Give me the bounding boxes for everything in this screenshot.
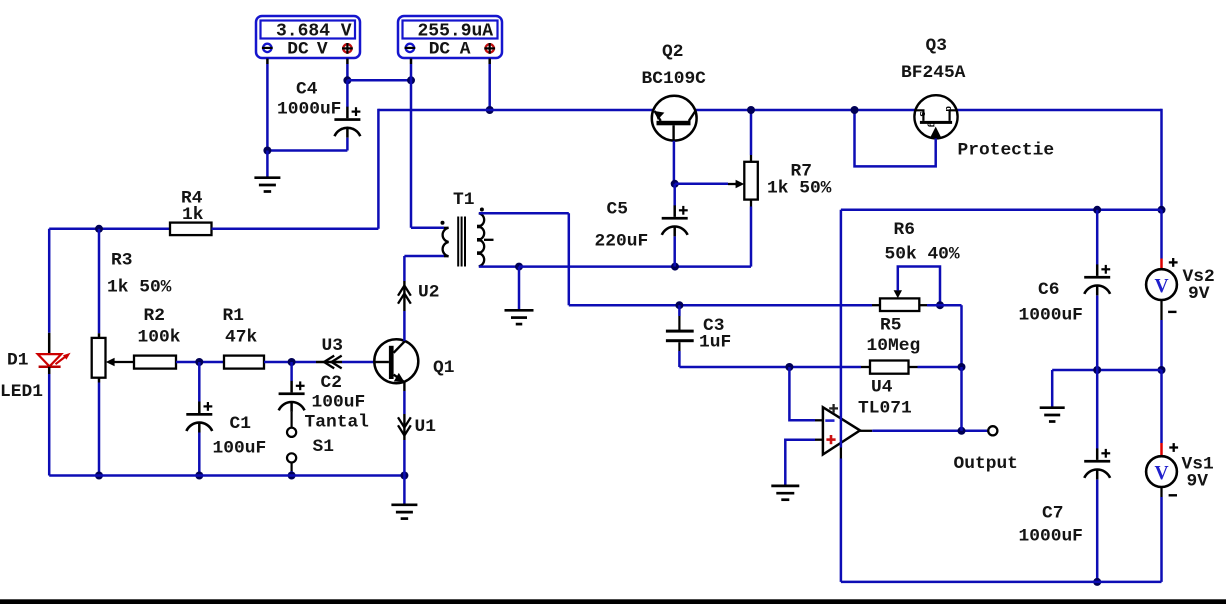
capacitor C2 labels <box>305 373 370 433</box>
node Q2 base junction <box>671 180 679 188</box>
resistor R1 labels <box>223 306 258 348</box>
node C5 bottom junction <box>671 263 679 271</box>
svg-text:R1: R1 <box>223 306 244 326</box>
wire R7 bottom lead <box>675 200 751 267</box>
capacitor C5 <box>662 205 688 236</box>
svg-text:R3: R3 <box>111 251 132 271</box>
svg-text:47k: 47k <box>225 328 257 348</box>
status bar <box>0 599 1226 604</box>
node C6 top junction <box>1093 206 1101 214</box>
capacitor C5 labels <box>595 200 649 252</box>
svg-text:R6: R6 <box>894 220 915 240</box>
node C7 bottom junction <box>1093 578 1101 586</box>
svg-text:C2: C2 <box>321 373 342 393</box>
wire Vs2 plus lead <box>1160 210 1163 270</box>
source Vs2 <box>1146 258 1178 312</box>
svg-text:C7: C7 <box>1042 503 1063 523</box>
wire ammeter to T1 primary <box>411 227 444 230</box>
wire opamp output <box>860 430 988 432</box>
node S1 bottom junction <box>288 472 296 480</box>
wire Q2 base to R7 wiper <box>675 183 737 186</box>
node voltmeter gnd junction <box>263 147 271 155</box>
capacitor C4 top wire <box>346 80 349 107</box>
node V+ supply junction <box>1158 206 1166 214</box>
capacitor C1 <box>186 402 212 433</box>
wire voltmeter gnd run <box>267 149 347 152</box>
wire C7 bottom lead <box>1096 480 1099 582</box>
svg-text:255.9uA: 255.9uA <box>418 21 494 41</box>
source Vs1 <box>1146 443 1178 495</box>
svg-text:9V: 9V <box>1188 284 1210 304</box>
svg-text:BC109C: BC109C <box>642 69 707 89</box>
resistor R2 <box>134 356 176 369</box>
svg-text:V: V <box>317 39 328 59</box>
transformer T1 secondary winding <box>477 213 484 266</box>
wire common gnd stub <box>1051 370 1054 407</box>
svg-text:V: V <box>1154 276 1168 297</box>
wire S1 bottom lead <box>291 463 293 476</box>
svg-text:U2: U2 <box>418 283 439 303</box>
wire C5 bottom rail <box>519 265 675 268</box>
resistor R4 labels <box>181 189 204 225</box>
wire Vs2 minus lead <box>1160 300 1162 370</box>
wire V+ rail corner to Vs2 <box>1160 109 1163 210</box>
svg-text:1000uF: 1000uF <box>277 100 341 120</box>
wire R7 top lead <box>750 110 752 162</box>
wire V+ rail left segment <box>378 109 654 112</box>
node C2 top junction <box>288 358 296 366</box>
resistor R4 <box>170 223 212 236</box>
potentiometer R6 body <box>880 298 919 311</box>
node R7 top junction <box>747 106 755 114</box>
capacitor C3 labels <box>699 316 731 352</box>
svg-text:1k 50%: 1k 50% <box>767 179 832 199</box>
wire R2-R1 link <box>176 361 224 364</box>
source Vs1 labels <box>1182 455 1214 492</box>
svg-text:A: A <box>460 39 471 59</box>
wire R4 right net <box>212 228 379 231</box>
wire output feedback riser <box>960 367 963 431</box>
wire C7 top lead <box>1096 370 1099 449</box>
transformer T1 primary winding <box>443 228 449 256</box>
ammeter XMM2 body <box>398 16 502 58</box>
terminal Output <box>988 426 997 435</box>
node R3 bottom junction <box>95 472 103 480</box>
svg-text:D1: D1 <box>7 351 28 371</box>
node T1 secondary gnd junction <box>515 263 523 271</box>
op-amp U4 labels <box>858 378 912 419</box>
arrow U2 label <box>418 283 439 303</box>
svg-text:s: s <box>917 111 928 117</box>
wire C1 top lead <box>198 362 201 402</box>
svg-text:50k 40%: 50k 40% <box>885 245 960 265</box>
node output junction <box>958 427 966 435</box>
node C1 bottom junction <box>195 472 203 480</box>
svg-text:100k: 100k <box>138 328 181 348</box>
svg-text:1uF: 1uF <box>699 332 731 352</box>
wire opamp inverting input <box>789 367 823 420</box>
potentiometer R7 labels <box>767 162 832 199</box>
wire C4 bottom <box>346 138 349 151</box>
wire T1 secondary bottom lead <box>479 265 519 268</box>
voltmeter XMM1 body <box>256 16 360 58</box>
wire Q1 gnd stub <box>403 476 406 505</box>
wire Q1 collector lead <box>403 311 406 341</box>
node R5 right junction <box>958 363 966 371</box>
svg-text:220uF: 220uF <box>595 232 649 252</box>
svg-text:C1: C1 <box>230 414 251 434</box>
wire opamp non-inverting input <box>785 440 823 485</box>
wire V- rail <box>841 581 1162 584</box>
wire R4 left net <box>49 228 170 231</box>
capacitor C7 labels <box>1019 503 1083 546</box>
svg-text:d: d <box>943 106 954 112</box>
capacitor C7 <box>1084 448 1110 479</box>
node C1 top junction <box>195 358 203 366</box>
wire C1 bottom lead <box>198 433 201 476</box>
wire R1 to U3 <box>264 361 316 364</box>
capacitor C2 <box>279 381 305 412</box>
capacitor C6 labels <box>1019 280 1083 326</box>
transistor Q3 <box>914 95 957 138</box>
wire Q3 gate loop <box>855 110 936 166</box>
wire R3 top lead <box>98 229 101 338</box>
svg-text:S1: S1 <box>313 437 334 457</box>
capacitor C4 <box>334 107 360 138</box>
ammeter XMM2 mode label DC A <box>429 39 471 59</box>
potentiometer R7 body <box>744 162 758 200</box>
transformer T1 label <box>453 190 474 210</box>
potentiometer R6 labels <box>885 220 960 265</box>
svg-text:DC: DC <box>429 39 451 59</box>
wire C5 top lead <box>673 184 676 206</box>
svg-text:V: V <box>1154 463 1168 484</box>
wire mid common rail <box>1052 369 1161 372</box>
wire C5 bottom lead <box>673 236 676 266</box>
wire Q2 base lead <box>673 141 676 184</box>
voltmeter XMM1 minus terminal <box>262 44 273 52</box>
transistor Q1 <box>374 339 418 383</box>
potentiometer R6 left lead <box>872 304 880 306</box>
svg-text:U1: U1 <box>415 417 436 437</box>
wire V+ rail middle segment <box>695 109 915 112</box>
ground GND1 <box>254 178 280 192</box>
wire T1 gnd stub <box>518 267 521 311</box>
wire R6 right lead <box>919 305 961 367</box>
wire C3 top lead <box>678 305 681 330</box>
ground GND4 <box>1040 408 1065 422</box>
wire ammeter plus lead <box>488 59 491 111</box>
svg-text:C5: C5 <box>607 200 628 220</box>
wire V+ rail right segment <box>957 109 1161 112</box>
node C4 top junction <box>343 76 351 84</box>
wire bottom rail <box>49 474 404 477</box>
voltmeter XMM1 reading 3.684 V <box>276 21 352 41</box>
node ammeter minus junction <box>407 76 415 84</box>
transformer T1 core <box>458 217 465 267</box>
wire C3 bottom lead <box>679 351 870 367</box>
transformer T1 primary dot <box>441 221 445 225</box>
svg-text:Q1: Q1 <box>433 358 454 378</box>
wire meters link <box>347 79 411 82</box>
svg-text:R2: R2 <box>144 306 165 326</box>
svg-text:C4: C4 <box>296 80 318 100</box>
voltmeter XMM1 mode label DC V <box>287 39 328 59</box>
ammeter XMM2 plus terminal <box>484 43 495 54</box>
wire Vs1 plus lead <box>1160 370 1163 456</box>
potentiometer R3 wiper arrow <box>106 358 135 367</box>
potentiometer R3 labels <box>107 251 172 298</box>
transformer T1 center tap stub <box>484 239 494 241</box>
wire voltmeter plus lead <box>346 59 349 81</box>
capacitor C4 label <box>277 80 341 120</box>
wire C2 top lead <box>290 362 293 381</box>
wire left rail upper <box>48 229 51 354</box>
op-amp U4 <box>823 404 860 455</box>
svg-text:C6: C6 <box>1038 280 1059 300</box>
node C7 top junction <box>1093 366 1101 374</box>
resistor R5 <box>870 361 909 374</box>
node Q3 gate junction <box>851 106 859 114</box>
potentiometer R6 wiper arrow <box>894 290 902 298</box>
wire V+ rail drop to R4 <box>377 109 380 229</box>
wire Q1 emitter lead <box>403 382 405 414</box>
node C3 top junction <box>675 301 683 309</box>
svg-text:9V: 9V <box>1187 472 1209 492</box>
arrow U1 label <box>415 417 436 437</box>
svg-text:100uF: 100uF <box>213 439 267 459</box>
svg-text:3.684 V: 3.684 V <box>276 21 352 41</box>
wire Vs1 minus lead <box>1160 487 1162 582</box>
svg-text:Tantal: Tantal <box>305 413 370 433</box>
wire voltmeter gnd stub <box>266 151 269 178</box>
node Vs2 minus junction <box>1158 366 1166 374</box>
svg-text:U4: U4 <box>871 378 893 398</box>
wire opamp supply column <box>840 210 843 582</box>
ground GND5 <box>771 486 799 500</box>
svg-text:Q3: Q3 <box>926 36 947 56</box>
transistor Q3 note Protectie <box>958 141 1055 161</box>
wire left rail lower <box>48 367 51 476</box>
arrow U3 label <box>322 336 343 356</box>
wire voltmeter minus lead <box>266 59 269 151</box>
svg-text:1000uF: 1000uF <box>1019 526 1083 546</box>
svg-text:DC: DC <box>287 39 309 59</box>
transistor Q3 labels <box>901 36 966 83</box>
wire R6 wiper loop <box>898 267 940 306</box>
svg-text:T1: T1 <box>453 190 474 210</box>
wire ammeter minus lead <box>410 59 413 228</box>
ground GND2 <box>391 505 417 519</box>
wire R5 right lead <box>909 366 962 368</box>
ammeter XMM2 reading 255.9uA <box>418 21 494 41</box>
diode D1 LED <box>38 353 71 367</box>
node R6 wiper junction <box>936 301 944 309</box>
svg-text:Protectie: Protectie <box>958 141 1055 161</box>
svg-text:Output: Output <box>954 454 1018 474</box>
svg-text:BF245A: BF245A <box>901 63 966 83</box>
arrow U2 <box>398 281 411 311</box>
svg-text:10Meg: 10Meg <box>867 336 921 356</box>
svg-text:g: g <box>927 122 938 128</box>
svg-text:100uF: 100uF <box>312 393 366 413</box>
capacitor C1 labels <box>213 414 267 459</box>
ammeter XMM2 minus terminal <box>405 44 416 52</box>
node opamp inverting junction <box>785 363 793 371</box>
wire C2 to S1 <box>291 412 293 428</box>
wire C6 top lead <box>1096 210 1099 265</box>
wire U1 to bottom rail <box>403 440 406 476</box>
diode D1 labels <box>0 351 43 402</box>
svg-text:1k 50%: 1k 50% <box>107 278 172 298</box>
arrow U3 <box>316 356 342 369</box>
resistor R1 <box>224 356 264 369</box>
svg-text:U3: U3 <box>322 336 343 356</box>
wire R3 bottom lead <box>98 378 101 476</box>
node Q1 emitter junction <box>400 472 408 480</box>
svg-text:Q2: Q2 <box>662 42 683 62</box>
ground GND3 <box>505 310 534 324</box>
svg-text:TL071: TL071 <box>858 399 912 419</box>
switch S1 <box>287 428 296 463</box>
node R3 top junction <box>95 225 103 233</box>
arrow U1 <box>398 414 411 440</box>
terminal Output label <box>954 454 1018 474</box>
wire opamp V+ feed <box>841 209 1162 212</box>
resistor R5 labels <box>867 316 921 356</box>
wire U2 to T1 primary <box>404 256 444 281</box>
wire C6 bottom lead <box>1096 296 1099 371</box>
svg-text:R5: R5 <box>880 316 901 336</box>
svg-text:1k: 1k <box>182 205 204 225</box>
svg-text:LED1: LED1 <box>0 382 43 402</box>
resistor R2 labels <box>138 306 181 348</box>
potentiometer R3 body <box>92 338 106 378</box>
transistor Q2 labels <box>642 42 707 89</box>
capacitor C6 <box>1084 264 1110 295</box>
svg-text:1000uF: 1000uF <box>1019 306 1083 326</box>
source Vs2 labels <box>1183 267 1215 304</box>
transistor Q2 <box>652 96 697 141</box>
switch S1 label <box>313 437 334 457</box>
wire U3 to Q1 base <box>342 361 389 364</box>
voltmeter XMM1 plus terminal <box>342 43 353 54</box>
wire T1 secondary top net <box>479 213 872 305</box>
potentiometer R7 wiper arrow <box>735 180 744 188</box>
transformer T1 secondary dot <box>480 208 484 212</box>
node ammeter plus on V+ rail <box>486 106 494 114</box>
transistor Q1 label <box>433 358 454 378</box>
capacitor C3 <box>666 330 694 351</box>
